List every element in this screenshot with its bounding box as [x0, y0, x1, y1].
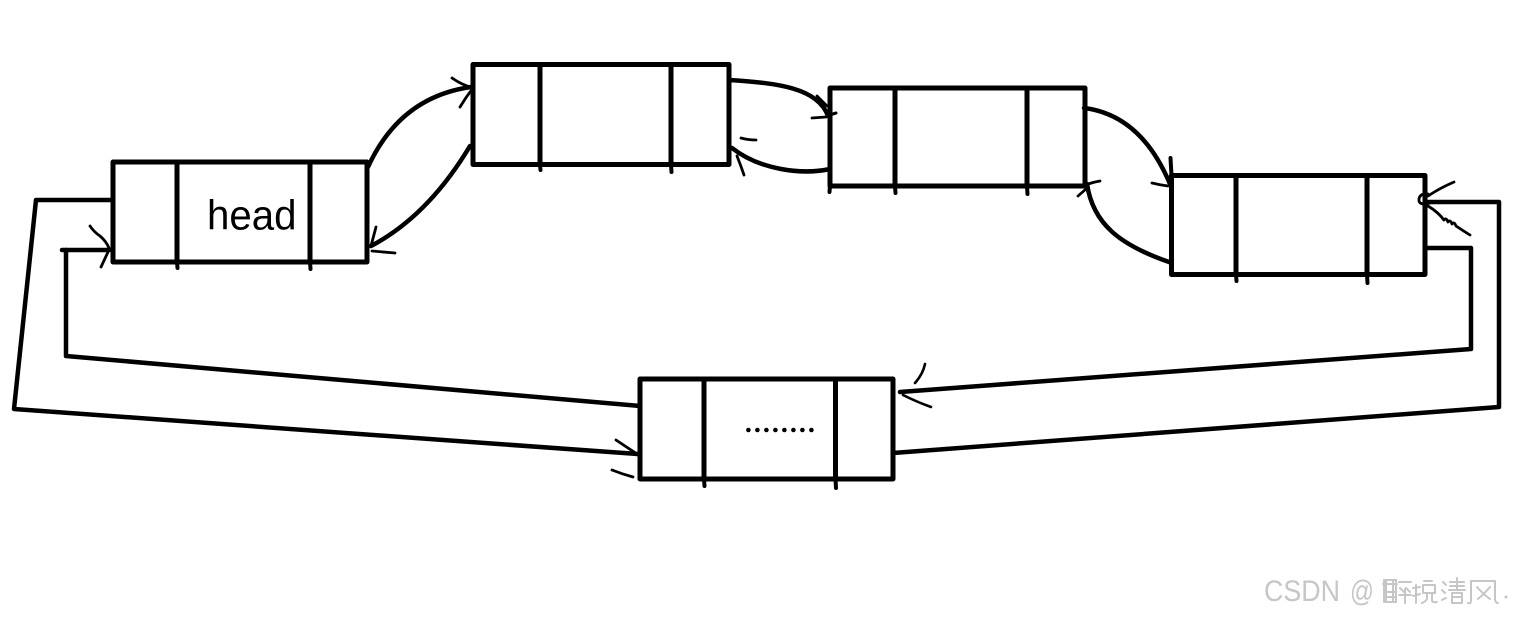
wire N1 to head (lower curve) [371, 146, 470, 253]
wan [1415, 585, 1417, 603]
node N1 (top box) [473, 65, 729, 173]
node head (box) [113, 162, 367, 269]
wire head to N1 (upper curve) [368, 78, 473, 167]
wire N2 to N1 (lower curve) [732, 138, 830, 175]
node N3 (right box) [1171, 158, 1426, 283]
wire N4 to head (inner left path) [62, 226, 640, 406]
svg-text:CSDN: CSDN [1264, 575, 1340, 608]
wire N1 to N2 (upper curve) [729, 80, 836, 118]
wire N3 to N2 (lower curve) [1078, 181, 1169, 262]
label dots in N4 [746, 428, 814, 433]
svg-text:head: head [207, 192, 297, 239]
qing [1443, 582, 1446, 585]
wire head loop to N4 (outer left path) [14, 200, 637, 477]
wire N4 to N3 (outer right path) [893, 182, 1499, 453]
svg-text:@: @ [1350, 575, 1374, 608]
watermark chinese glyphs (vector) [1383, 578, 1508, 603]
node N2 (upper right box) [830, 88, 1086, 194]
zui [1384, 580, 1396, 602]
feng [1468, 581, 1471, 603]
wire N3 to N4 (inner right path) [900, 248, 1471, 407]
wire N2 to N3 (upper curve) [1084, 108, 1170, 186]
watermark CSDN [1264, 575, 1374, 608]
node N4 (bottom box) [640, 379, 893, 488]
